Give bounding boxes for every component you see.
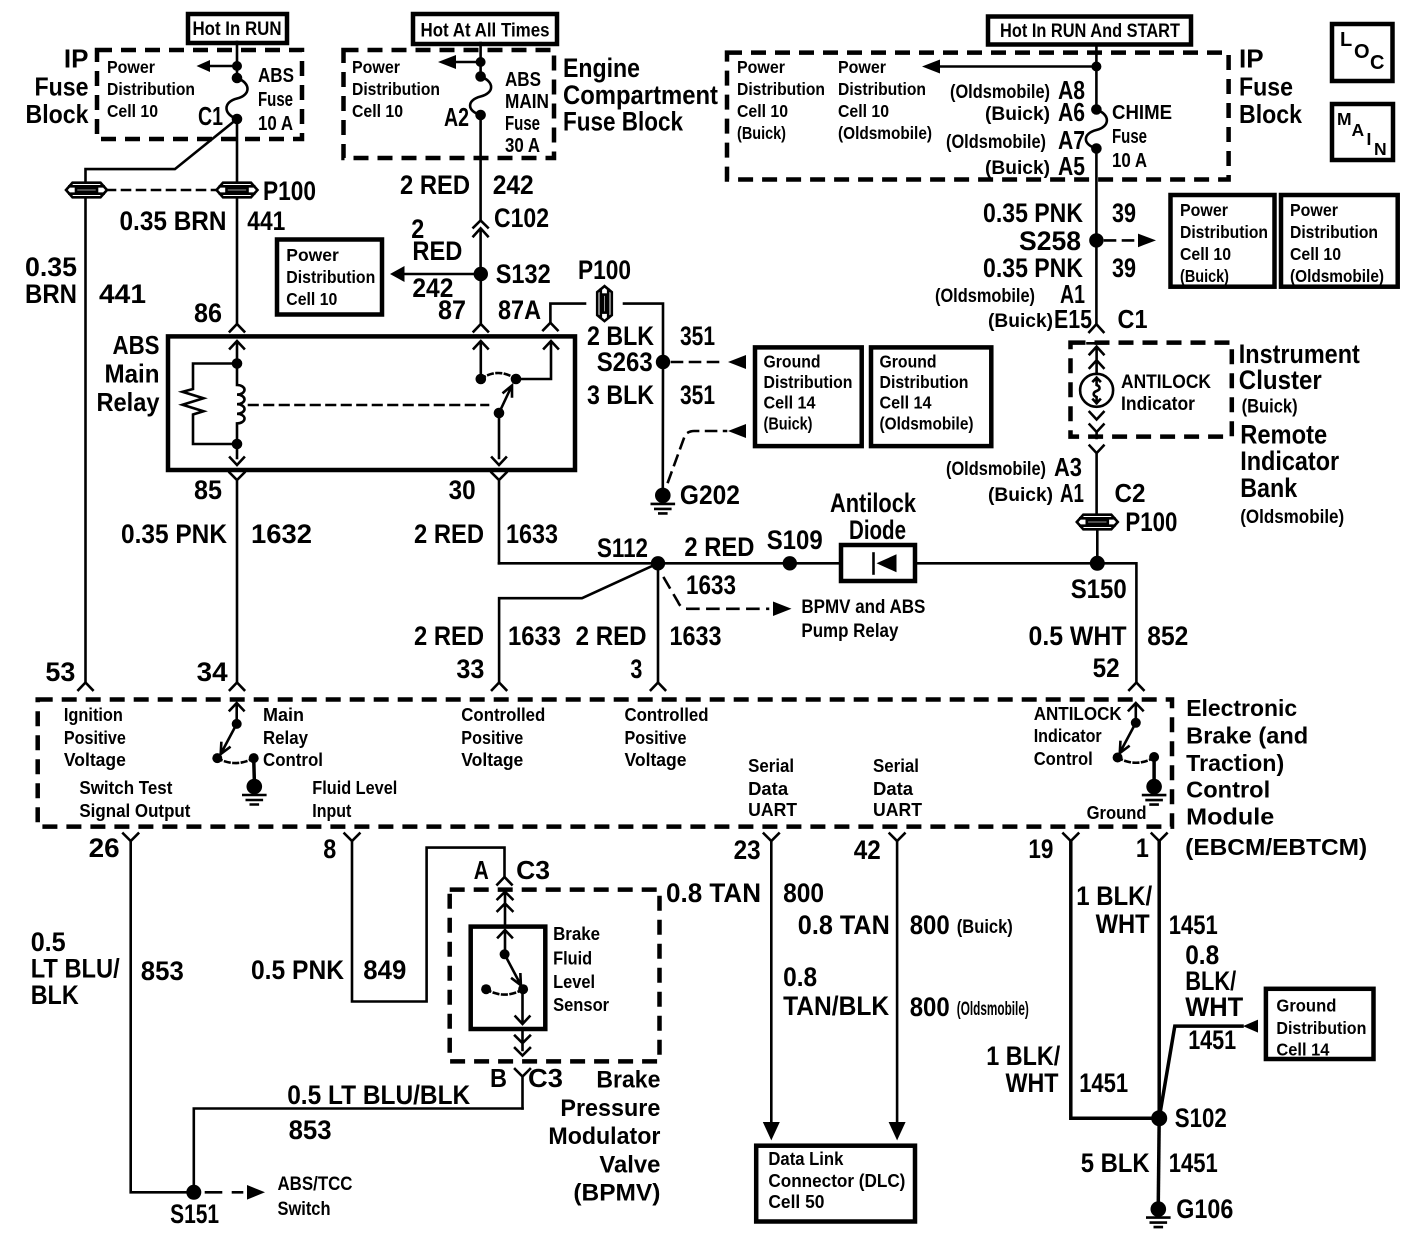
wire label 2 RED 1633 (pin 33) <box>414 621 561 651</box>
svg-text:C: C <box>1370 52 1384 74</box>
svg-text:85: 85 <box>194 475 222 505</box>
svg-text:Pressure: Pressure <box>560 1095 660 1122</box>
pin 42 exit chevron and label <box>854 834 905 866</box>
svg-text:Voltage: Voltage <box>625 750 687 770</box>
dashed link between P100 grommets <box>107 189 216 192</box>
svg-text:Data: Data <box>873 779 914 799</box>
pin 8 exit chevron and label <box>323 834 359 865</box>
svg-text:Voltage: Voltage <box>461 750 523 770</box>
svg-text:87: 87 <box>438 295 466 325</box>
svg-text:E15: E15 <box>1054 304 1092 334</box>
wire label 5 BLK 1451 <box>1081 1148 1218 1178</box>
svg-text:IP: IP <box>1239 44 1264 74</box>
EBCM module dashed box <box>38 700 1172 827</box>
terminal A2 label <box>444 102 469 132</box>
terminal labels Oldsmobile A7 Buick A5 <box>946 125 1085 181</box>
svg-text:Block: Block <box>26 99 89 129</box>
relay pin 87A internal path <box>516 341 558 379</box>
svg-text:(Oldsmobile): (Oldsmobile) <box>1290 266 1384 286</box>
svg-text:Relay: Relay <box>263 728 308 748</box>
label Engine Compartment Fuse Block <box>563 53 718 137</box>
pin 30 exit chevron <box>492 473 507 564</box>
svg-text:853: 853 <box>141 956 184 986</box>
svg-text:Valve: Valve <box>599 1151 660 1178</box>
pin 52 label <box>1093 653 1120 683</box>
relay pin 86 internal arrow <box>230 341 244 364</box>
svg-text:Cell 10: Cell 10 <box>352 101 403 121</box>
svg-text:1 BLK/: 1 BLK/ <box>1076 881 1152 911</box>
svg-text:Diode: Diode <box>849 515 906 545</box>
label IP Fuse Block (left) <box>26 44 89 130</box>
svg-text:S132: S132 <box>496 259 551 289</box>
svg-text:Controlled: Controlled <box>625 705 709 725</box>
svg-text:2 RED: 2 RED <box>414 519 484 549</box>
svg-text:S258: S258 <box>1019 226 1081 256</box>
svg-text:0.5 LT BLU/BLK: 0.5 LT BLU/BLK <box>287 1080 470 1110</box>
splice S132 <box>474 259 551 289</box>
svg-text:849: 849 <box>363 955 406 985</box>
wire label 1 BLK/ WHT 1451 (pin 1) <box>1076 881 1218 940</box>
svg-text:52: 52 <box>1093 653 1120 683</box>
wire label 2 RED 242 <box>400 170 534 200</box>
label Serial Data UART (pin 42) <box>873 756 922 820</box>
wire diode to S150 <box>915 562 1097 565</box>
svg-text:C1: C1 <box>198 101 223 131</box>
svg-text:30: 30 <box>449 475 476 505</box>
svg-text:Voltage: Voltage <box>64 750 126 770</box>
terminal labels Oldsmobile A8 Buick A6 <box>950 75 1085 127</box>
svg-text:Cell 10: Cell 10 <box>1290 244 1341 264</box>
svg-text:Cell 14: Cell 14 <box>764 393 816 413</box>
label Switch Test Signal Output <box>79 778 190 821</box>
pin 3 chevron <box>651 683 665 691</box>
arrow from S132 to Power Distribution box <box>390 266 481 282</box>
wire from header through fuse <box>479 43 482 77</box>
svg-text:Switch Test: Switch Test <box>79 778 172 798</box>
relay pin 30 internal arrow <box>492 413 506 465</box>
svg-text:C2: C2 <box>1115 478 1146 508</box>
pin 87A connector chevron and wire to P100 <box>543 304 585 331</box>
svg-text:0.8: 0.8 <box>783 962 817 992</box>
svg-text:S112: S112 <box>597 533 648 563</box>
wire diagonal from fuse to left branch <box>86 119 238 183</box>
svg-text:A1: A1 <box>1060 478 1084 508</box>
svg-text:53: 53 <box>45 657 75 687</box>
svg-text:1633: 1633 <box>508 621 561 651</box>
arrow feed to Power Distribution (engine) <box>438 55 486 69</box>
splice S263 <box>597 347 671 377</box>
header box Hot In RUN <box>188 14 287 43</box>
svg-text:853: 853 <box>289 1115 332 1145</box>
svg-text:(Oldsmobile): (Oldsmobile) <box>935 286 1035 307</box>
svg-text:1451: 1451 <box>1079 1068 1128 1098</box>
svg-text:Module: Module <box>1186 804 1274 830</box>
svg-text:351: 351 <box>680 321 715 351</box>
sensor switch <box>481 930 529 1024</box>
pin 3 label <box>630 654 642 684</box>
wire pin 26 to S151 <box>131 841 186 1192</box>
svg-text:34: 34 <box>197 657 228 687</box>
svg-text:C3: C3 <box>528 1063 563 1093</box>
svg-text:Antilock: Antilock <box>830 488 917 518</box>
svg-text:42: 42 <box>854 835 881 865</box>
svg-text:Brake: Brake <box>596 1067 660 1094</box>
svg-text:Power: Power <box>1290 200 1338 220</box>
pin 1 exit chevron and label <box>1136 833 1167 863</box>
svg-text:N: N <box>1374 139 1387 159</box>
reference box Power Distribution Cell 10 (Buick) <box>1171 195 1275 287</box>
svg-text:A: A <box>474 855 489 885</box>
svg-text:Connector (DLC): Connector (DLC) <box>768 1171 905 1191</box>
wire label 0.35 PNK 39 (below S258) <box>983 253 1136 283</box>
svg-text:Ground: Ground <box>1276 996 1336 1016</box>
relay internal dashed link <box>249 404 488 407</box>
svg-text:(Buick): (Buick) <box>988 311 1053 332</box>
wire pin 1 to S102 <box>1157 841 1161 1110</box>
BPMV exit double chevron <box>515 1029 530 1056</box>
svg-text:Distribution: Distribution <box>737 79 825 99</box>
svg-text:1632: 1632 <box>251 519 312 549</box>
splice S258 <box>1019 226 1104 256</box>
svg-text:Ground: Ground <box>1087 803 1147 823</box>
label Electronic Brake (and Traction) Control Module (EBCM/EBTCM) <box>1185 695 1367 860</box>
svg-text:(BPMV): (BPMV) <box>573 1180 660 1207</box>
bulkhead connector P100 (at C2) <box>1077 507 1178 537</box>
wire label 2 RED 1633 (pin 3) <box>576 621 722 651</box>
bulkhead connector P100 (right grommet) <box>217 183 258 198</box>
svg-text:Power: Power <box>352 57 400 77</box>
label ABS Main Relay <box>97 330 160 417</box>
svg-text:IP: IP <box>64 44 89 74</box>
wire label 0.8 TAN/BLK 800 (Oldsmobile) <box>783 962 1029 1022</box>
svg-text:Distribution: Distribution <box>352 79 440 99</box>
svg-text:S102: S102 <box>1175 1103 1227 1133</box>
svg-text:S150: S150 <box>1071 574 1127 604</box>
cluster lower chevron <box>1090 446 1104 513</box>
svg-text:0.35 PNK: 0.35 PNK <box>121 519 227 549</box>
svg-text:(EBCM/EBTCM): (EBCM/EBTCM) <box>1185 834 1367 860</box>
svg-text:1633: 1633 <box>506 519 558 549</box>
text Power Distribution Cell 10 (engine fuse block) <box>352 57 440 121</box>
svg-text:800: 800 <box>910 992 950 1022</box>
pin 34 label <box>197 657 228 687</box>
cluster exit connector detail <box>1090 412 1104 438</box>
svg-text:ABS: ABS <box>113 330 160 360</box>
svg-text:2 RED: 2 RED <box>684 532 754 562</box>
svg-text:(Buick): (Buick) <box>737 123 786 143</box>
pin 30 label <box>449 475 476 505</box>
svg-text:Compartment: Compartment <box>563 80 718 110</box>
wire label 0.5 PNK 849 <box>251 955 406 985</box>
ground G106 <box>1147 1194 1233 1227</box>
svg-text:Control: Control <box>1186 777 1270 803</box>
IP fuse block (left) dashed box <box>97 50 302 139</box>
splice S102 <box>1151 1103 1227 1133</box>
svg-text:C102: C102 <box>494 203 549 233</box>
text Power Distribution Cell 10 (left fuse block) <box>107 57 195 121</box>
IP fuse block (right) dashed box <box>727 53 1229 180</box>
svg-text:Hot In RUN And START: Hot In RUN And START <box>1000 21 1180 42</box>
svg-text:351: 351 <box>680 380 715 410</box>
svg-text:RED: RED <box>412 236 462 266</box>
svg-text:ANTILOCK: ANTILOCK <box>1121 372 1211 393</box>
svg-text:3 BLK: 3 BLK <box>587 380 654 410</box>
svg-text:1451: 1451 <box>1188 1025 1236 1055</box>
svg-text:ABS: ABS <box>505 69 541 91</box>
reference box Power Distribution Cell 10 (Oldsmobile) <box>1281 195 1398 287</box>
svg-text:Bank: Bank <box>1240 473 1298 503</box>
svg-text:Input: Input <box>312 801 351 821</box>
wire pin 19 to S102 <box>1071 841 1152 1118</box>
svg-text:0.35 PNK: 0.35 PNK <box>983 198 1083 228</box>
svg-text:441: 441 <box>247 206 285 236</box>
reference box Power Distribution Cell 10 (at S132) <box>277 240 382 315</box>
relay resistor <box>183 364 238 445</box>
svg-text:0.35 BRN: 0.35 BRN <box>120 206 227 236</box>
svg-text:Fuse: Fuse <box>1112 126 1147 148</box>
header box Hot At All Times <box>413 14 557 44</box>
text Power Distribution Cell 10 (Buick) in right fuse block <box>737 57 825 143</box>
svg-text:Fluid Level: Fluid Level <box>312 778 397 798</box>
svg-text:ABS/TCC: ABS/TCC <box>278 1174 353 1195</box>
svg-text:(Buick): (Buick) <box>988 485 1053 506</box>
wire label 3 BLK 351 <box>587 380 715 410</box>
svg-text:(Buick): (Buick) <box>957 917 1013 938</box>
pin 87 label <box>438 295 466 325</box>
wire label 0.35 PNK 39 (above S258) <box>983 198 1136 228</box>
svg-text:I: I <box>1367 129 1372 149</box>
wire S263 to G202 <box>661 362 664 488</box>
svg-text:MAIN: MAIN <box>505 91 549 113</box>
label Antilock Diode <box>830 488 917 545</box>
svg-text:Switch: Switch <box>278 1199 331 1220</box>
pin 53 label and chevron <box>45 657 92 690</box>
svg-text:P100: P100 <box>578 255 631 285</box>
svg-text:S263: S263 <box>597 347 653 377</box>
svg-text:2 RED: 2 RED <box>400 170 470 200</box>
reference box Ground Distribution Cell 14 <box>1266 989 1374 1060</box>
label Controlled Positive Voltage (pin 3) <box>625 705 709 770</box>
wire label 2 BLK 351 <box>587 321 715 351</box>
svg-text:Ground: Ground <box>764 352 821 372</box>
pin 26 exit chevron and label <box>89 833 139 863</box>
svg-text:Brake (and: Brake (and <box>1186 723 1308 749</box>
svg-text:10 A: 10 A <box>1112 150 1147 172</box>
svg-text:Indicator: Indicator <box>1121 394 1196 415</box>
arrow feed to Power Distribution (right) <box>922 60 1101 74</box>
svg-text:Cell 50: Cell 50 <box>768 1192 824 1212</box>
svg-text:Positive: Positive <box>625 728 687 748</box>
label ANTILOCK Indicator Control <box>1034 704 1122 769</box>
svg-text:Power: Power <box>107 57 155 77</box>
wire S102 to ground distribution arrow <box>1159 1020 1258 1119</box>
reference box Ground Distribution Cell 14 (Oldsmobile) <box>871 347 991 446</box>
label IP Fuse Block (right) <box>1239 44 1302 130</box>
text Power Distribution Cell 10 (Oldsmobile) in right fuse block <box>838 57 932 143</box>
cluster entry connector detail <box>1088 343 1106 374</box>
wire S112 branch to pin 33 <box>499 563 658 681</box>
svg-text:8: 8 <box>323 834 336 864</box>
arrow feed to Power Distribution (left) <box>197 60 243 72</box>
svg-text:Main: Main <box>105 359 160 389</box>
svg-text:C3: C3 <box>516 855 550 885</box>
splice S112 <box>597 533 665 571</box>
svg-text:Cell 14: Cell 14 <box>880 393 932 413</box>
dashed arrow S112 to BPMV and ABS Pump Relay <box>664 578 925 642</box>
brake fluid level sensor box <box>471 927 546 1029</box>
svg-text:P100: P100 <box>1125 507 1177 537</box>
svg-text:(Oldsmobile): (Oldsmobile) <box>1240 507 1344 528</box>
svg-text:CHIME: CHIME <box>1112 102 1172 124</box>
svg-text:P100: P100 <box>263 176 316 206</box>
wire label 2 RED 1633 (pin 30) <box>414 519 558 549</box>
svg-text:A6: A6 <box>1058 97 1085 127</box>
svg-text:TAN/BLK: TAN/BLK <box>783 991 889 1021</box>
svg-text:A: A <box>1352 120 1365 140</box>
svg-text:Ground: Ground <box>880 352 937 372</box>
fuse ABS Fuse 10 A <box>227 73 248 125</box>
svg-text:Cell 10: Cell 10 <box>107 101 158 121</box>
pin 33 label <box>456 654 484 684</box>
pin 34 chevron <box>230 683 244 691</box>
svg-text:O: O <box>1354 41 1370 63</box>
svg-text:Controlled: Controlled <box>461 705 545 725</box>
wire label 0.35 BRN 441 (left vertical) <box>25 252 146 309</box>
svg-text:(Oldsmobile): (Oldsmobile) <box>957 999 1029 1020</box>
svg-text:C1: C1 <box>1118 304 1148 334</box>
pin 87 connector chevron <box>474 274 488 332</box>
wire label 0.8 TAN 800 (pin 23) <box>666 878 824 908</box>
LOC marker box <box>1332 24 1393 81</box>
terminal labels Oldsmobile A1 Buick E15 C1 <box>935 279 1148 334</box>
label ANTILOCK Indicator <box>1121 372 1211 415</box>
wire P100 down to relay pin 86 <box>236 198 239 325</box>
label Remote Indicator Bank (Oldsmobile) <box>1240 420 1344 529</box>
wire from header into right fuse block <box>1095 44 1098 110</box>
label Brake Pressure Modulator Valve (BPMV) <box>548 1067 660 1207</box>
svg-text:3: 3 <box>630 654 642 684</box>
svg-text:2 RED: 2 RED <box>576 621 647 651</box>
svg-text:19: 19 <box>1028 834 1053 864</box>
svg-text:Ignition: Ignition <box>64 705 123 725</box>
svg-text:Data: Data <box>748 779 789 799</box>
svg-text:Cell 10: Cell 10 <box>286 289 337 309</box>
svg-text:Power: Power <box>286 245 339 265</box>
svg-text:1633: 1633 <box>670 621 722 651</box>
svg-text:Serial: Serial <box>748 756 794 776</box>
wire label 0.35 PNK 1632 <box>121 519 312 549</box>
pin 85 label <box>194 475 222 505</box>
svg-text:Cell 10: Cell 10 <box>737 101 788 121</box>
svg-text:800: 800 <box>783 878 824 908</box>
text CHIME Fuse 10 A <box>1112 102 1172 172</box>
label P100 <box>263 176 316 206</box>
svg-text:0.8 TAN: 0.8 TAN <box>798 910 890 940</box>
svg-text:Indicator: Indicator <box>1240 446 1339 476</box>
svg-text:Level: Level <box>553 972 595 992</box>
svg-text:S109: S109 <box>767 525 823 555</box>
svg-text:Power: Power <box>838 57 886 77</box>
svg-text:39: 39 <box>1112 198 1136 228</box>
wire label 0.35 BRN 441 (top) <box>120 206 286 236</box>
svg-text:A2: A2 <box>444 102 469 132</box>
svg-text:ANTILOCK: ANTILOCK <box>1034 704 1122 724</box>
svg-text:30 A: 30 A <box>505 135 540 157</box>
label Fluid Level Input <box>312 778 397 821</box>
wire label 0.5 LT BLU/ BLK 853 <box>31 927 184 1010</box>
wire label 0.5 WHT 852 <box>1029 621 1189 651</box>
wire pin B to S151 <box>194 1109 523 1193</box>
wire S112 to diode <box>658 562 841 565</box>
in-line connector C102 <box>473 203 549 274</box>
dashed arrow S263 to Ground Distribution <box>672 355 746 369</box>
svg-text:B: B <box>490 1063 507 1093</box>
svg-text:G106: G106 <box>1176 1194 1233 1224</box>
svg-text:Modulator: Modulator <box>548 1123 660 1150</box>
pin 52 chevron <box>1129 683 1143 691</box>
svg-text:33: 33 <box>456 654 484 684</box>
svg-text:Signal Output: Signal Output <box>79 801 190 821</box>
dashed arrow G202 to Ground Distribution <box>668 424 746 482</box>
wire S102 to G106 <box>1157 1118 1161 1201</box>
svg-text:86: 86 <box>194 298 222 328</box>
svg-text:1: 1 <box>1136 833 1149 863</box>
ground G202 <box>652 480 740 513</box>
wire label 0.8 TAN 800 (Buick) <box>798 910 1013 940</box>
svg-text:WHT: WHT <box>1006 1068 1059 1098</box>
label Main Relay Control <box>263 705 323 770</box>
svg-text:Cluster: Cluster <box>1239 365 1322 395</box>
terminal labels Oldsmobile A3 Buick A1 C2 <box>946 452 1146 508</box>
svg-text:(Buick): (Buick) <box>1242 397 1298 418</box>
splice S150 <box>1071 556 1127 604</box>
svg-text:Distribution: Distribution <box>107 79 195 99</box>
pin 86 label <box>194 298 222 328</box>
svg-text:L: L <box>1340 29 1352 51</box>
Engine Compartment fuse block dashed box <box>344 50 555 158</box>
relay coil <box>232 358 245 449</box>
wire P100 to S150 <box>1096 532 1099 564</box>
svg-text:(Oldsmobile): (Oldsmobile) <box>946 132 1046 153</box>
reference box Data Link Connector (DLC) Cell 50 <box>756 1146 915 1222</box>
relay box ABS Main Relay <box>168 336 575 470</box>
pin 86 connector chevron <box>230 324 244 332</box>
wire CHIME fuse down to S258 <box>1089 149 1103 333</box>
svg-text:23: 23 <box>734 835 761 865</box>
svg-text:Brake: Brake <box>553 924 600 944</box>
relay switch blade <box>494 374 522 419</box>
svg-text:2 RED: 2 RED <box>414 621 484 651</box>
wire label 0.8 BLK/ WHT 1451 (to ground distribution) <box>1185 940 1243 1055</box>
svg-text:Indicator: Indicator <box>1034 726 1102 746</box>
MAIN marker box <box>1332 104 1393 160</box>
text ABS Fuse 10 A <box>258 65 294 135</box>
svg-text:(Buick): (Buick) <box>1180 266 1229 286</box>
svg-text:(Buick): (Buick) <box>985 104 1050 125</box>
svg-text:39: 39 <box>1112 253 1136 283</box>
svg-text:852: 852 <box>1147 621 1188 651</box>
svg-text:Distribution: Distribution <box>286 267 375 287</box>
terminal C1 label <box>198 101 223 131</box>
antilock diode box <box>841 545 915 581</box>
svg-text:Fluid: Fluid <box>553 949 592 969</box>
svg-text:BLK: BLK <box>31 980 79 1010</box>
svg-text:WHT: WHT <box>1096 909 1150 939</box>
label Brake Fluid Level Sensor <box>553 924 609 1015</box>
svg-text:0.5 PNK: 0.5 PNK <box>251 955 344 985</box>
svg-text:Serial: Serial <box>873 756 919 776</box>
svg-text:Fuse: Fuse <box>35 72 89 102</box>
